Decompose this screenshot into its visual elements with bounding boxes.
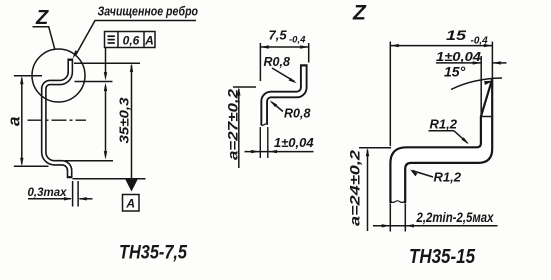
svg-text:Z: Z [35, 7, 49, 29]
svg-text:Z: Z [352, 2, 367, 25]
svg-text:A: A [125, 197, 135, 211]
svg-text:ТН35-7,5: ТН35-7,5 [119, 243, 187, 264]
svg-text:a=24±0,2: a=24±0,2 [347, 150, 363, 226]
svg-text:0,6: 0,6 [123, 33, 140, 47]
svg-text:R0,8: R0,8 [284, 107, 310, 121]
svg-text:0,3max: 0,3max [28, 185, 68, 199]
svg-text:ТН35-15: ТН35-15 [409, 246, 476, 268]
svg-text:15: 15 [446, 27, 466, 43]
svg-text:R1,2: R1,2 [430, 117, 458, 132]
svg-text:a: a [5, 117, 24, 126]
svg-text:15°: 15° [444, 64, 466, 80]
svg-text:A: A [144, 33, 154, 47]
svg-text:R0,8: R0,8 [264, 55, 290, 69]
svg-text:7,5: 7,5 [269, 28, 288, 43]
svg-text:R1,2: R1,2 [434, 170, 462, 185]
svg-text:35±0,3: 35±0,3 [117, 97, 132, 144]
svg-text:Зачищенное ребро: Зачищенное ребро [98, 4, 199, 19]
svg-text:-0,4: -0,4 [289, 35, 306, 46]
svg-text:-0,4: -0,4 [471, 36, 489, 47]
svg-text:1±0,04: 1±0,04 [274, 135, 314, 150]
svg-text:2,2min-2,5мах: 2,2min-2,5мах [416, 209, 495, 225]
